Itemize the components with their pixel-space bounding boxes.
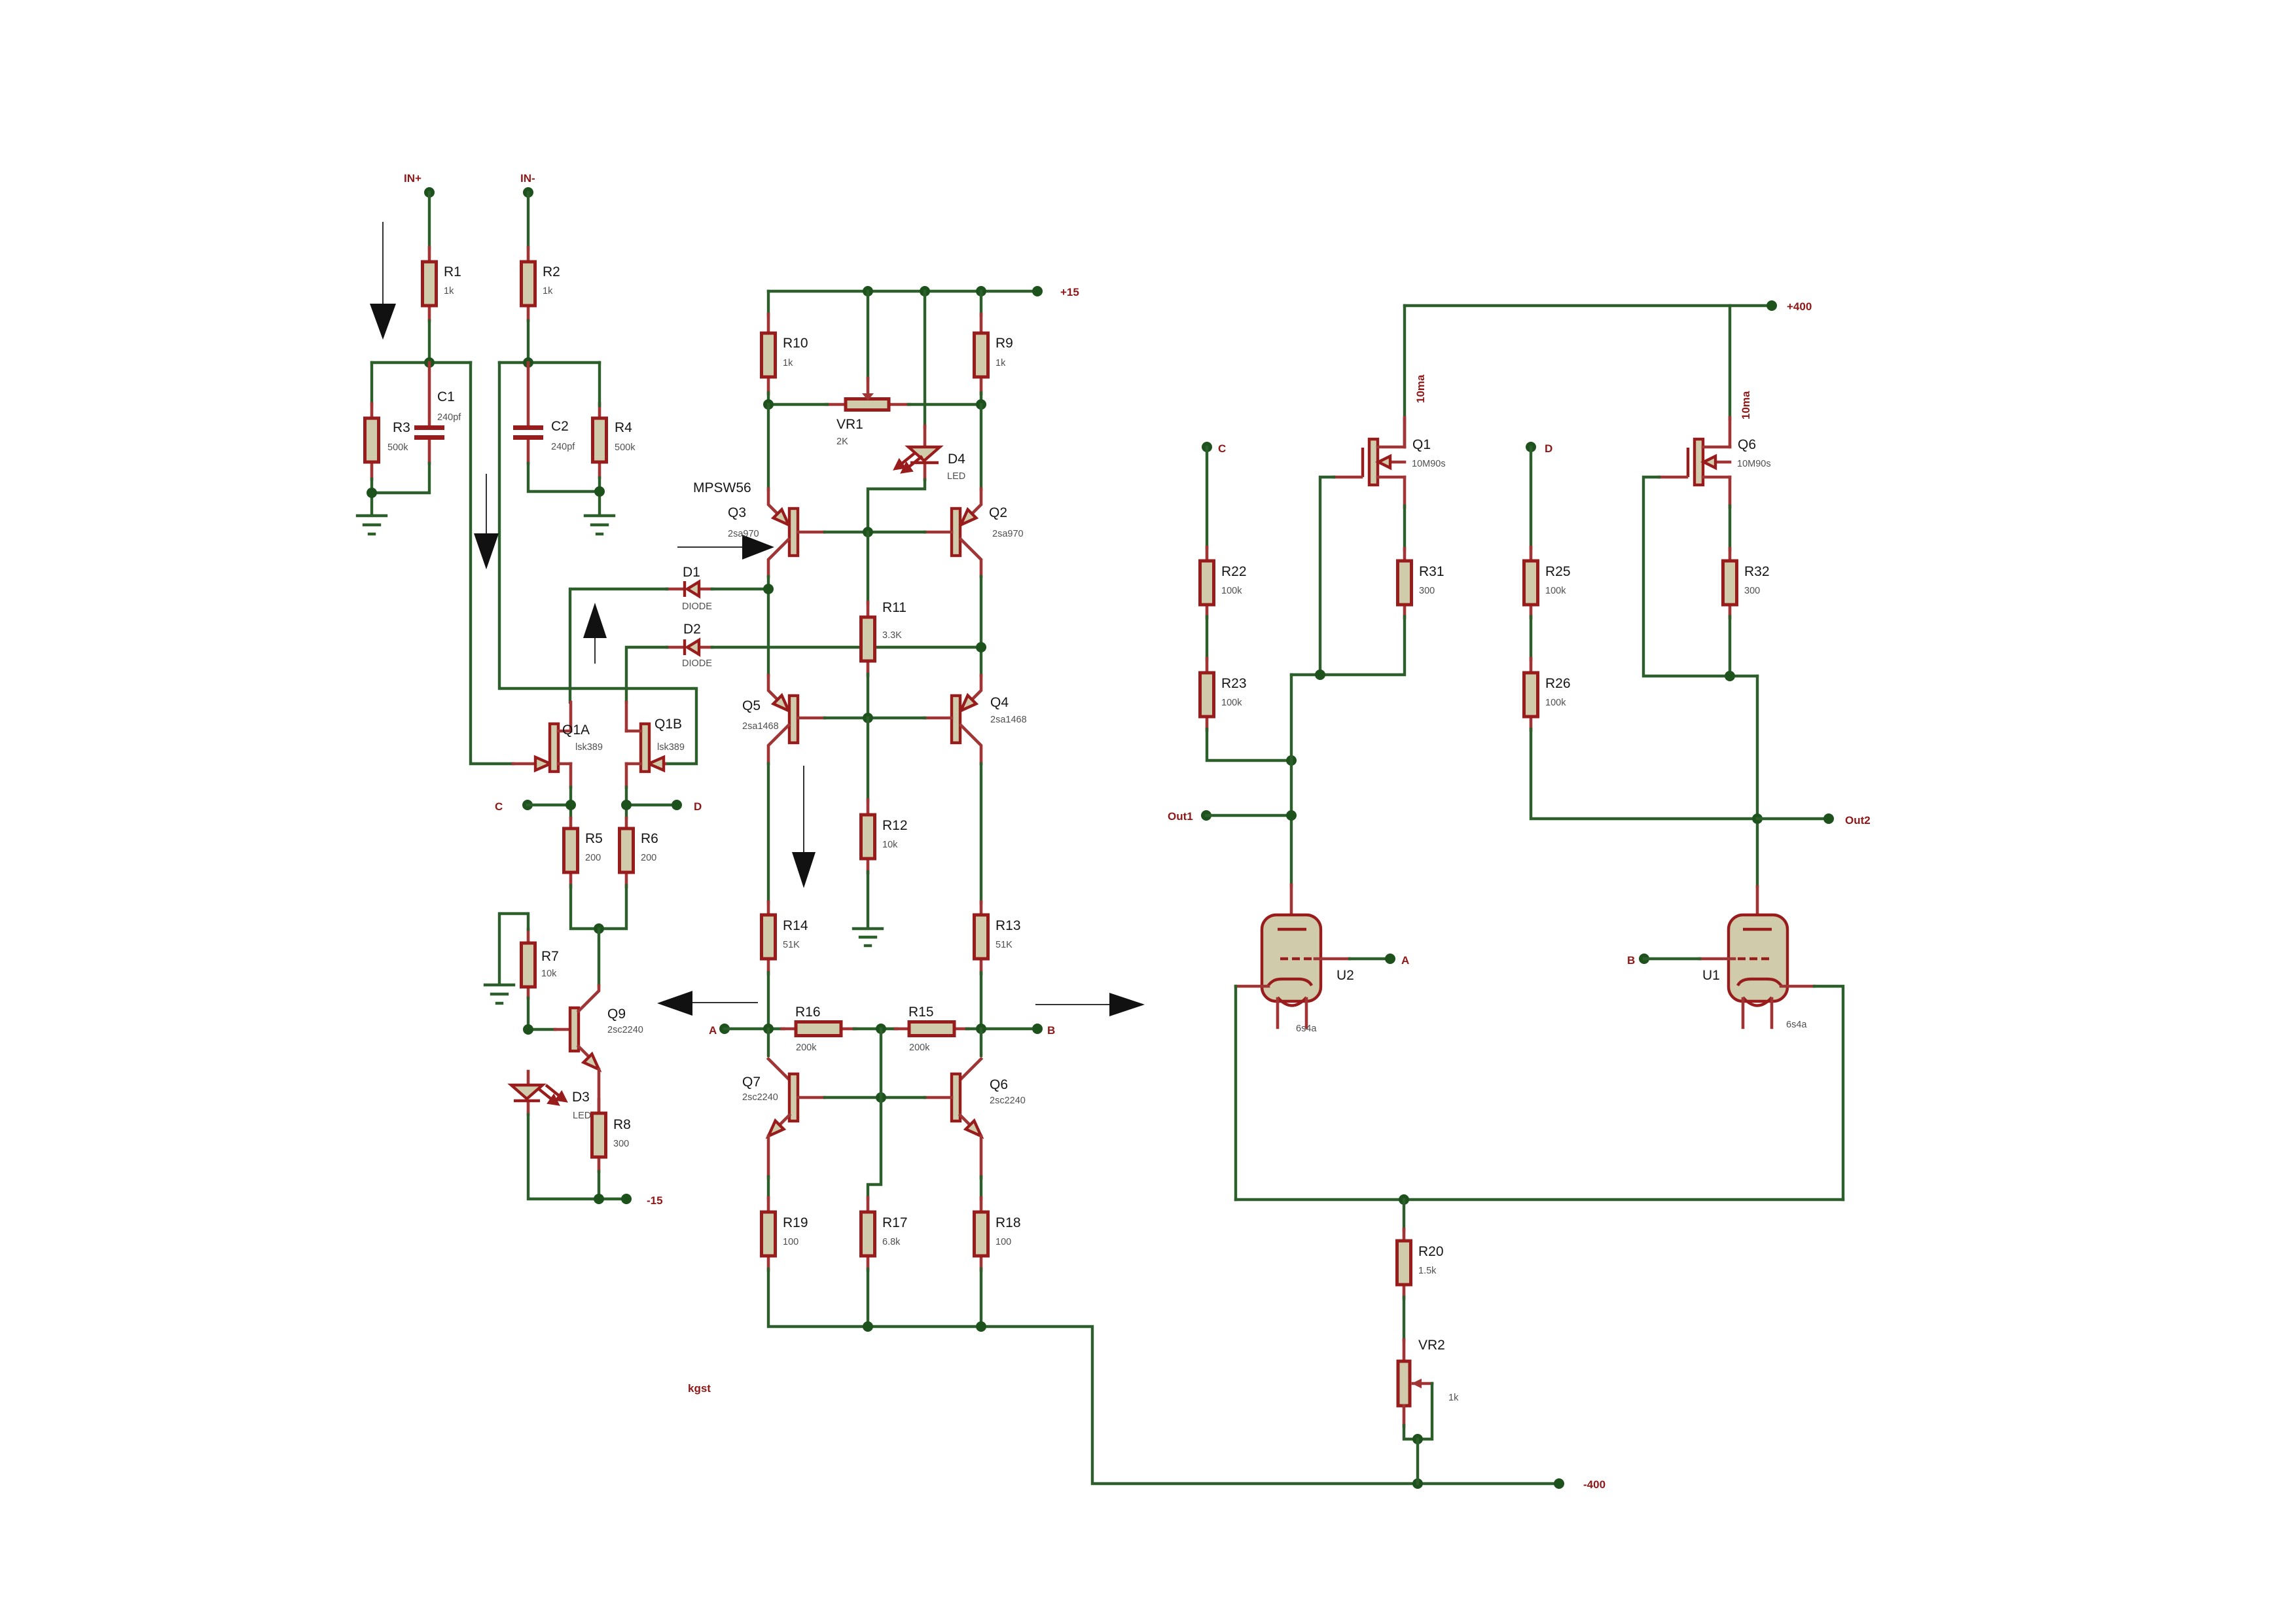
svg-text:1k: 1k bbox=[543, 286, 553, 296]
svg-text:A: A bbox=[709, 1024, 717, 1037]
junction node bbox=[594, 486, 605, 497]
junction node bbox=[863, 286, 873, 296]
net label IN+ bbox=[404, 172, 435, 198]
resistor R31 300 bbox=[1398, 548, 1444, 618]
svg-text:10M90s: 10M90s bbox=[1412, 459, 1446, 469]
junction node bbox=[1412, 1478, 1423, 1489]
svg-text:R16: R16 bbox=[795, 1005, 821, 1020]
wire R7 bottom to Q9 base bbox=[528, 998, 555, 1029]
potentiometer VR2 1k bbox=[1398, 1338, 1459, 1427]
resistor R22 100k bbox=[1200, 547, 1247, 618]
wire R5 R6 join bbox=[571, 885, 626, 929]
wire join down to Q9 collector bbox=[598, 929, 600, 986]
svg-text:kgst: kgst bbox=[688, 1382, 711, 1395]
svg-text:100k: 100k bbox=[1221, 586, 1242, 596]
svg-text:R11: R11 bbox=[882, 600, 906, 615]
wire C1 bottom bbox=[372, 463, 429, 493]
ground bbox=[485, 985, 514, 1003]
wire R8 bottom bbox=[598, 1171, 600, 1199]
wire rail down to Q6 drain bbox=[1729, 306, 1731, 419]
wire Q6 emitter down bbox=[980, 1136, 983, 1199]
svg-text:R5: R5 bbox=[585, 831, 603, 846]
svg-text:+400: +400 bbox=[1787, 300, 1812, 313]
junction node bbox=[976, 1024, 986, 1034]
wire Q7 emitter down bbox=[767, 1136, 770, 1199]
wire Q5 collector down to R14 bbox=[767, 764, 770, 903]
wire Out1 stub bbox=[1206, 814, 1291, 817]
svg-text:B: B bbox=[1627, 954, 1635, 967]
svg-text:-15: -15 bbox=[647, 1194, 663, 1207]
svg-text:+15: +15 bbox=[1060, 286, 1079, 298]
net label -15 bbox=[621, 1194, 663, 1207]
svg-text:R22: R22 bbox=[1221, 564, 1247, 579]
wire Q3 Q2 base row bbox=[825, 531, 925, 533]
wire R10 bottom node bbox=[767, 393, 770, 404]
junction node bbox=[594, 923, 604, 934]
svg-text:D: D bbox=[694, 800, 702, 813]
svg-text:IN-: IN- bbox=[520, 172, 535, 185]
wire +400 rail bbox=[1405, 304, 1772, 307]
svg-text:10ma: 10ma bbox=[1414, 374, 1427, 403]
svg-text:200k: 200k bbox=[909, 1043, 930, 1053]
wire bottom rail bbox=[768, 1269, 1559, 1484]
wire R4 bottom bbox=[598, 478, 601, 515]
svg-text:1k: 1k bbox=[783, 358, 793, 368]
junction node bbox=[1286, 810, 1297, 821]
svg-text:R32: R32 bbox=[1744, 564, 1770, 579]
transistor Q3 2sa970 bbox=[728, 404, 825, 577]
svg-text:D: D bbox=[1545, 442, 1552, 455]
svg-text:U2: U2 bbox=[1336, 968, 1354, 983]
junction node bbox=[763, 584, 774, 594]
wire center down to R17 bbox=[880, 1029, 882, 1097]
svg-text:2sa970: 2sa970 bbox=[728, 529, 759, 539]
svg-text:R26: R26 bbox=[1545, 676, 1571, 691]
svg-text:2sc2240: 2sc2240 bbox=[607, 1025, 643, 1035]
net label A bbox=[709, 1024, 730, 1037]
wire Q1A source to node C bbox=[569, 787, 572, 818]
svg-text:2sa1468: 2sa1468 bbox=[742, 721, 779, 732]
svg-text:2sc2240: 2sc2240 bbox=[742, 1092, 778, 1103]
wire Q1 gate down bbox=[1320, 477, 1334, 675]
svg-text:B: B bbox=[1047, 1024, 1055, 1037]
resistor R20 1.5k bbox=[1397, 1229, 1444, 1298]
svg-text:100: 100 bbox=[996, 1237, 1011, 1247]
net label C bbox=[495, 800, 533, 813]
junction node bbox=[1286, 755, 1297, 766]
svg-text:51K: 51K bbox=[783, 940, 800, 950]
svg-text:10M90s: 10M90s bbox=[1737, 459, 1771, 469]
svg-text:1k: 1k bbox=[444, 286, 454, 296]
svg-text:Q3: Q3 bbox=[728, 505, 746, 520]
svg-text:100k: 100k bbox=[1221, 698, 1242, 708]
svg-text:Out1: Out1 bbox=[1168, 810, 1193, 823]
svg-text:Q1: Q1 bbox=[1412, 437, 1431, 452]
svg-text:D4: D4 bbox=[948, 452, 965, 467]
wire R12 to ground bbox=[867, 872, 869, 928]
resistor R18 100 bbox=[975, 1198, 1021, 1270]
wire D1 right to Q3 collector line bbox=[712, 588, 768, 590]
svg-text:200: 200 bbox=[585, 853, 601, 863]
junction node bbox=[565, 800, 576, 810]
arrow up at D1 bbox=[583, 603, 607, 664]
svg-text:Q1B: Q1B bbox=[655, 717, 682, 732]
svg-text:R6: R6 bbox=[641, 831, 658, 846]
svg-text:R20: R20 bbox=[1418, 1244, 1444, 1259]
svg-text:100k: 100k bbox=[1545, 698, 1566, 708]
wire +15 rail bbox=[768, 290, 1037, 293]
svg-text:R4: R4 bbox=[615, 420, 632, 435]
svg-text:300: 300 bbox=[1419, 586, 1435, 596]
net label Out1 bbox=[1168, 810, 1211, 823]
svg-text:R12: R12 bbox=[882, 818, 908, 833]
resistor R16 200k bbox=[782, 1005, 855, 1053]
tube U1 6s4a bbox=[1700, 887, 1814, 1030]
resistor R13 51K bbox=[975, 902, 1021, 974]
junction node bbox=[976, 399, 986, 410]
net label IN- bbox=[520, 172, 535, 198]
wire Q7 Q6 base row bbox=[825, 1096, 925, 1099]
arrow down at IN+ bbox=[370, 222, 396, 340]
svg-text:500k: 500k bbox=[615, 442, 636, 453]
junction node bbox=[1399, 1194, 1409, 1205]
wire IN+ down to R1 bbox=[428, 192, 431, 249]
ground bbox=[853, 929, 882, 946]
svg-text:240pf: 240pf bbox=[437, 412, 461, 423]
tube U2 6s4a bbox=[1236, 885, 1354, 1034]
net label -400 bbox=[1554, 1478, 1605, 1491]
junction node bbox=[876, 1092, 886, 1103]
wire R31 bottom node row bbox=[1291, 616, 1405, 675]
capacitor C1 240pf bbox=[414, 363, 461, 463]
junction node bbox=[424, 357, 435, 368]
svg-text:R23: R23 bbox=[1221, 676, 1247, 691]
svg-text:10ma: 10ma bbox=[1740, 391, 1752, 419]
arrow down below C1 bbox=[474, 474, 499, 569]
svg-text:DIODE: DIODE bbox=[682, 658, 712, 669]
junction node bbox=[763, 1024, 774, 1034]
wire R1 to junction bbox=[428, 321, 431, 363]
junction node bbox=[523, 357, 533, 368]
svg-text:200: 200 bbox=[641, 853, 656, 863]
transistor Q5 2sa1468 bbox=[742, 675, 825, 764]
wire plate column down bbox=[1290, 675, 1293, 886]
svg-text:R13: R13 bbox=[996, 918, 1021, 933]
resistor R14 51K bbox=[762, 902, 808, 974]
wire Q6 source to R32 bbox=[1729, 506, 1731, 550]
resistor R32 300 bbox=[1723, 548, 1770, 618]
wire R16 to center bbox=[854, 1027, 897, 1030]
junction node bbox=[621, 800, 632, 810]
wire U2 grid to A bbox=[1350, 957, 1390, 960]
wire R20 to VR2 bbox=[1403, 1297, 1405, 1341]
svg-text:D3: D3 bbox=[572, 1090, 590, 1105]
led D4 bbox=[895, 291, 965, 482]
svg-text:C2: C2 bbox=[551, 419, 569, 434]
svg-text:2sa970: 2sa970 bbox=[992, 529, 1024, 539]
potentiometer VR1 2K bbox=[826, 291, 910, 447]
wire C down to R22 bbox=[1206, 447, 1208, 548]
resistor R17 6.8k bbox=[861, 1198, 908, 1270]
svg-text:2sa1468: 2sa1468 bbox=[990, 715, 1027, 725]
net label A right bbox=[1385, 954, 1409, 967]
wire B to U1 grid bbox=[1644, 957, 1700, 960]
wire R3 bottom bbox=[370, 479, 373, 515]
svg-text:C1: C1 bbox=[437, 389, 455, 404]
wire long vertical IN+ to Q1A gate bbox=[471, 363, 513, 764]
svg-text:1k: 1k bbox=[996, 358, 1006, 368]
svg-text:R15: R15 bbox=[908, 1005, 934, 1020]
svg-text:1k: 1k bbox=[1448, 1393, 1459, 1403]
transistor Q2 2sa970 bbox=[925, 404, 1024, 577]
wire Q1 source to R31 bbox=[1403, 506, 1406, 550]
wire R4 top bbox=[598, 363, 601, 406]
jfet Q1A lsk389 bbox=[513, 702, 603, 787]
wire VR2 to -400 bbox=[1416, 1439, 1419, 1484]
diode D1 bbox=[667, 565, 712, 612]
junction node bbox=[1412, 1434, 1423, 1444]
svg-text:Q7: Q7 bbox=[742, 1075, 761, 1090]
junction node bbox=[367, 488, 377, 498]
wire base node down jog to R17 bbox=[868, 1097, 881, 1199]
capacitor C2 240pf bbox=[513, 363, 575, 463]
svg-text:R1: R1 bbox=[444, 264, 461, 279]
svg-text:lsk389: lsk389 bbox=[657, 742, 685, 753]
svg-text:Out2: Out2 bbox=[1845, 814, 1871, 827]
svg-text:10k: 10k bbox=[541, 969, 557, 979]
svg-text:240pf: 240pf bbox=[551, 442, 575, 452]
wire junction horizontal IN+ bbox=[372, 361, 471, 364]
svg-text:A: A bbox=[1401, 954, 1409, 967]
wire VR2 wiper loop bbox=[1404, 1383, 1432, 1439]
junction node bbox=[1725, 671, 1735, 681]
wire Q2 collector down bbox=[980, 577, 982, 675]
svg-text:U1: U1 bbox=[1702, 968, 1720, 983]
wire R18 bottom bbox=[980, 1269, 982, 1327]
wire R26 bottom to Out2 row bbox=[1531, 729, 1757, 819]
svg-text:-400: -400 bbox=[1583, 1478, 1605, 1491]
resistor R4 500k bbox=[593, 404, 636, 478]
junction node bbox=[523, 1024, 533, 1035]
svg-text:2sc2240: 2sc2240 bbox=[990, 1096, 1026, 1106]
svg-text:R19: R19 bbox=[783, 1215, 808, 1230]
wire long vertical IN- bbox=[499, 363, 696, 764]
svg-text:D1: D1 bbox=[683, 565, 700, 580]
junction node bbox=[863, 1321, 873, 1332]
junction node bbox=[976, 642, 986, 652]
svg-text:Q1A: Q1A bbox=[562, 722, 590, 738]
junction node bbox=[763, 399, 774, 410]
wire Q4 collector down to R13 bbox=[980, 764, 982, 903]
svg-text:6.8k: 6.8k bbox=[882, 1237, 901, 1247]
wire R7 top to ground bbox=[499, 914, 528, 984]
resistor R2 1k bbox=[522, 247, 560, 321]
net label +400 bbox=[1767, 300, 1812, 313]
net label +15 bbox=[1032, 286, 1079, 298]
svg-text:Q4: Q4 bbox=[990, 695, 1009, 710]
svg-text:100: 100 bbox=[783, 1237, 798, 1247]
junction node bbox=[863, 527, 873, 537]
junction node bbox=[920, 286, 930, 296]
wire Q3 collector down bbox=[767, 577, 770, 675]
resistor R7 10k bbox=[522, 929, 559, 998]
svg-text:C: C bbox=[495, 800, 503, 813]
svg-text:R10: R10 bbox=[783, 336, 808, 351]
svg-text:R14: R14 bbox=[783, 918, 808, 933]
led D3 bbox=[511, 1071, 591, 1121]
net label B bbox=[1032, 1024, 1055, 1037]
transistor Q9 2sc2240 bbox=[555, 986, 643, 1113]
net label Out2 bbox=[1823, 813, 1871, 827]
wire R23 bottom to tube plate column bbox=[1207, 729, 1291, 760]
resistor R26 100k bbox=[1524, 658, 1571, 730]
wire R9 bottom node bbox=[980, 393, 982, 404]
resistor R9 1k bbox=[975, 291, 1013, 394]
svg-text:LED: LED bbox=[573, 1111, 591, 1121]
net label D bbox=[672, 800, 702, 813]
svg-text:3.3K: 3.3K bbox=[882, 630, 902, 641]
resistor R6 200 bbox=[620, 818, 658, 887]
resistor R19 100 bbox=[762, 1198, 808, 1270]
net label D right bbox=[1526, 442, 1552, 455]
svg-text:MPSW56: MPSW56 bbox=[693, 480, 751, 495]
svg-text:R17: R17 bbox=[882, 1215, 908, 1230]
wire C2 bottom bbox=[528, 463, 600, 491]
ground bbox=[585, 516, 614, 534]
svg-text:Q5: Q5 bbox=[742, 698, 761, 713]
svg-text:R2: R2 bbox=[543, 264, 560, 279]
wire D4 cathode to base node bbox=[868, 480, 925, 532]
jfet Q1B lsk389 bbox=[626, 702, 685, 787]
svg-text:lsk389: lsk389 bbox=[575, 742, 603, 753]
resistor R8 300 bbox=[592, 1099, 631, 1171]
wire IN- down to R2 bbox=[527, 192, 529, 249]
svg-text:DIODE: DIODE bbox=[682, 601, 712, 612]
junction node bbox=[1315, 669, 1325, 680]
svg-text:IN+: IN+ bbox=[404, 172, 422, 185]
svg-text:C: C bbox=[1218, 442, 1226, 455]
wire R13 bottom to B row bbox=[980, 972, 982, 1029]
svg-text:R3: R3 bbox=[393, 420, 410, 435]
svg-text:500k: 500k bbox=[387, 442, 408, 453]
svg-text:R18: R18 bbox=[996, 1215, 1021, 1230]
wire R22 to R23 bbox=[1206, 616, 1208, 660]
svg-text:6s4a: 6s4a bbox=[1296, 1024, 1317, 1034]
resistor R25 100k bbox=[1524, 547, 1571, 618]
wire A to R16 bbox=[725, 1027, 783, 1030]
wire VR1 left to R10 node bbox=[768, 403, 827, 406]
svg-text:D2: D2 bbox=[683, 622, 701, 637]
transistor Q7 2sc2240 bbox=[742, 1029, 825, 1136]
wire VR1 right to R9 node bbox=[908, 403, 981, 406]
svg-text:R25: R25 bbox=[1545, 564, 1571, 579]
svg-text:2K: 2K bbox=[836, 437, 848, 447]
resistor R1 1k bbox=[423, 247, 461, 321]
wire D2 right to Q2 collector line bbox=[712, 646, 981, 649]
svg-text:VR1: VR1 bbox=[836, 417, 863, 432]
svg-text:Q6: Q6 bbox=[1738, 437, 1756, 452]
svg-text:Q6: Q6 bbox=[990, 1077, 1008, 1092]
resistor R12 10k bbox=[861, 718, 908, 873]
svg-text:10k: 10k bbox=[882, 840, 898, 850]
resistor R23 100k bbox=[1200, 658, 1247, 730]
svg-text:100k: 100k bbox=[1545, 586, 1566, 596]
wire D stub bbox=[626, 804, 677, 806]
resistor R11 3.3K bbox=[861, 532, 906, 675]
wire D2 left to Q1B drain bbox=[626, 647, 667, 702]
svg-text:R8: R8 bbox=[613, 1117, 631, 1132]
svg-text:300: 300 bbox=[613, 1139, 629, 1149]
wire U2 cathode down bbox=[1234, 986, 1237, 1200]
wire D3 down to -15 rail bbox=[528, 1115, 626, 1199]
ground bbox=[357, 516, 386, 534]
transistor Q6 2sc2240 bbox=[925, 1029, 1026, 1136]
mosfet Q1 10M90s bbox=[1334, 418, 1446, 507]
resistor R5 200 bbox=[564, 818, 603, 887]
svg-text:R7: R7 bbox=[541, 949, 559, 964]
arrow left at Q9 bbox=[657, 991, 758, 1016]
wire R25 to R26 bbox=[1530, 616, 1532, 660]
svg-text:Q2: Q2 bbox=[989, 505, 1007, 520]
junction node bbox=[863, 713, 873, 723]
wire U1 cathode down bbox=[1814, 986, 1843, 1200]
diode D2 bbox=[667, 622, 712, 669]
wire R15 to B bbox=[967, 1027, 1037, 1030]
svg-text:R31: R31 bbox=[1419, 564, 1444, 579]
svg-text:51K: 51K bbox=[996, 940, 1013, 950]
wire rail down to R20 bbox=[1403, 1200, 1405, 1230]
transistor Q4 2sa1468 bbox=[925, 675, 1027, 764]
wire down to R3 bbox=[370, 363, 373, 404]
arrow down above R14 bbox=[792, 766, 816, 888]
mosfet Q6 10M90s bbox=[1659, 418, 1771, 507]
wire right plate column down bbox=[1756, 676, 1759, 887]
arrow right at MPSW56 bbox=[677, 535, 774, 560]
arrow right at B bbox=[1035, 993, 1145, 1016]
wire R32 bottom bbox=[1729, 616, 1731, 676]
wire rail down to Q1 drain bbox=[1403, 306, 1406, 419]
wire R14 bottom to A row bbox=[767, 972, 770, 1029]
svg-text:Q9: Q9 bbox=[607, 1007, 626, 1022]
wire Q6 gate down bbox=[1643, 477, 1757, 676]
wire Q5 Q4 base row bbox=[825, 717, 925, 719]
svg-text:6s4a: 6s4a bbox=[1786, 1020, 1807, 1030]
svg-text:R9: R9 bbox=[996, 336, 1013, 351]
wire cathode rail bbox=[1236, 1198, 1843, 1201]
junction node bbox=[976, 1321, 986, 1332]
net label C right bbox=[1202, 442, 1226, 455]
junction node bbox=[976, 286, 986, 296]
resistor R3 500k bbox=[365, 404, 410, 479]
wire Out2 stub bbox=[1757, 817, 1829, 820]
junction node bbox=[1752, 813, 1763, 824]
junction node bbox=[876, 1024, 886, 1034]
net label B right bbox=[1627, 954, 1649, 967]
svg-text:1.5k: 1.5k bbox=[1418, 1266, 1437, 1276]
wire R2 to junction bbox=[527, 321, 529, 363]
svg-text:200k: 200k bbox=[796, 1043, 817, 1053]
wire D1 left to Q1A drain bbox=[570, 589, 667, 702]
wire Q1B source to node D bbox=[625, 787, 628, 818]
junction node bbox=[594, 1194, 604, 1204]
wire D down to R25 bbox=[1530, 447, 1532, 548]
wire C stub bbox=[528, 804, 571, 806]
svg-text:300: 300 bbox=[1744, 586, 1760, 596]
resistor R15 200k bbox=[895, 1005, 968, 1053]
resistor R10 1k bbox=[762, 291, 808, 394]
svg-text:LED: LED bbox=[947, 471, 965, 482]
wire R11 bottom to Q5 Q4 base node bbox=[867, 674, 869, 718]
